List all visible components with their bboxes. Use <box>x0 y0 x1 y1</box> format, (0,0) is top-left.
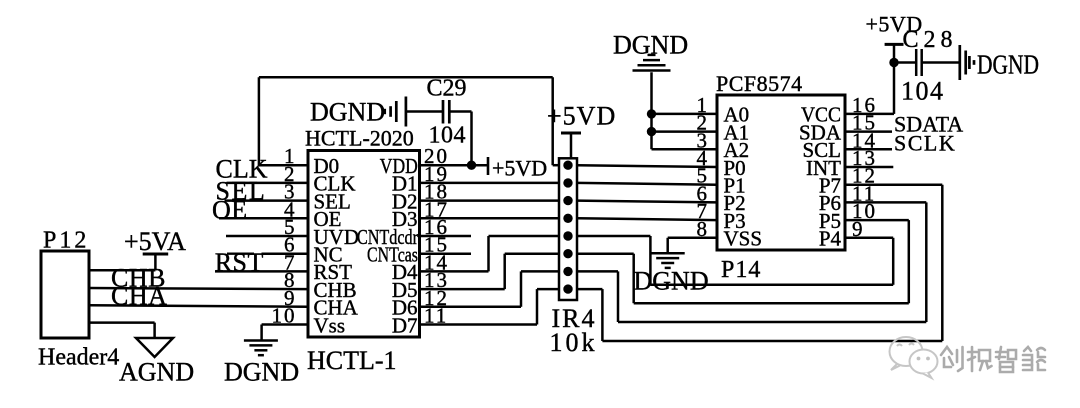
wire D1 HCTL to IR4 <box>420 182 560 185</box>
label DGND near C29 <box>310 98 385 127</box>
ground DGND sideways for C29 <box>385 97 406 127</box>
pin number 7 PCF <box>697 199 710 223</box>
wire D2 IR4 to PCF P2 <box>577 201 717 203</box>
wire VSS pin 8 to ground <box>668 238 717 253</box>
svg-text:9: 9 <box>852 217 865 241</box>
pin name NC (pin 6) <box>314 243 343 267</box>
wire CLK to pin 2 <box>227 182 309 185</box>
pin name SDA (pin 15) <box>799 120 842 144</box>
pin number 14 <box>424 250 449 274</box>
wire INT stub <box>845 166 893 169</box>
pin name VCC (pin 16) <box>801 103 841 127</box>
svg-text:VSS: VSS <box>724 227 763 251</box>
pin number 17 <box>424 197 449 221</box>
wire D3 HCTL to IR4 <box>420 217 560 220</box>
pin name P7 (pin 12) <box>819 174 841 198</box>
pin name D6 (pin 12) <box>392 296 418 320</box>
label P12 designator <box>43 228 89 254</box>
pin number 4 <box>284 197 297 221</box>
pin name RST (pin 7) <box>314 260 353 284</box>
ground DGND sideways for C28 <box>960 45 974 80</box>
svg-text:DGND: DGND <box>224 358 299 387</box>
svg-text:HCTL-2020: HCTL-2020 <box>305 126 414 151</box>
svg-text:PCF8574: PCF8574 <box>716 71 803 96</box>
wire D3 IR4 to PCF P3 <box>577 218 717 220</box>
label DGND under HCTL <box>224 358 299 387</box>
wire D0 IR4 to PCF P0 <box>577 165 717 167</box>
pin name CHA (pin 9) <box>314 296 359 320</box>
label 104 value of C28 <box>901 77 945 106</box>
pin name D3 (pin 17) <box>392 207 418 231</box>
wire D5 to P5 routing <box>577 220 909 303</box>
pin number 1 <box>284 144 297 168</box>
svg-text:104: 104 <box>901 77 945 106</box>
wire P12 pin4 to AGND <box>89 323 155 338</box>
svg-text:Header4: Header4 <box>38 345 119 371</box>
net label CHA <box>111 282 167 311</box>
pin number 11 <box>424 304 448 328</box>
wire D4 to P4 routing <box>577 236 893 285</box>
pin number 3 <box>284 180 297 204</box>
wire SEL to pin 3 <box>225 199 309 202</box>
label Header4 <box>38 345 119 371</box>
watermark text chuangshi zhineng <box>941 347 1045 372</box>
label +5VA <box>124 227 186 256</box>
wire SDA stub <box>845 130 892 133</box>
junction VCC C28 <box>889 58 898 67</box>
wire A1 to ground bus <box>652 130 718 133</box>
wire pin 6 stub <box>262 252 309 255</box>
power +5VA symbol <box>143 254 169 270</box>
junction IR4 pin dot row 5 <box>563 231 572 240</box>
pin name CNTdcdr (pin 16) <box>357 225 418 249</box>
wire CHB P12 to pin 8 <box>89 288 308 289</box>
pin number 20 <box>424 144 449 168</box>
ground DGND above PCF <box>633 55 671 71</box>
svg-text:104: 104 <box>429 123 467 149</box>
net label SCLK <box>894 131 956 156</box>
pin name UVD (pin 5) <box>314 225 360 249</box>
resistor network IR4 body <box>559 158 577 300</box>
label 10k value <box>550 328 598 357</box>
label PCF8574 part name <box>716 71 803 96</box>
svg-text:C29: C29 <box>427 76 467 102</box>
pin number 8 <box>284 268 297 292</box>
svg-text:10k: 10k <box>550 328 598 357</box>
pin name P1 (pin 5) <box>724 174 746 198</box>
pin name A1 (pin 2) <box>724 120 750 144</box>
pin name SEL (pin 3) <box>314 189 351 213</box>
pin number 10 <box>272 304 297 328</box>
wire D4 HCTL staircase to IR4 <box>420 236 560 271</box>
pin name D1 (pin 19) <box>392 172 418 196</box>
pin name VSS (pin 8) <box>724 227 763 251</box>
connector P12 body <box>41 251 89 338</box>
wire CNTdcdr pin 16 stub <box>420 235 472 238</box>
junction A0 ground bus <box>647 109 656 118</box>
IC U2 PCF8574 body <box>717 95 845 250</box>
pin number 9 PCF <box>852 217 865 241</box>
pin name OE (pin 4) <box>314 207 342 231</box>
svg-text:+5VD: +5VD <box>492 156 547 181</box>
capacitor C29 plates <box>443 100 449 124</box>
label AGND <box>119 358 194 387</box>
pin name A2 (pin 3) <box>724 138 750 162</box>
pin name D2 (pin 18) <box>392 189 418 213</box>
net label CLK <box>216 155 268 184</box>
pin number 1 PCF <box>697 93 710 117</box>
pin name P5 (pin 10) <box>819 209 841 233</box>
wire A0 to ground bus <box>652 113 718 116</box>
pin number 2 <box>284 162 297 186</box>
wire junction to C28 left plate <box>894 61 916 64</box>
pin name P2 (pin 6) <box>724 191 746 215</box>
svg-text:DGND: DGND <box>310 98 385 127</box>
pin number 18 <box>424 180 449 204</box>
label DGND at VSS <box>634 267 709 296</box>
wire A2 to ground bus <box>652 72 718 149</box>
wire D0 pin 1 to top loop <box>259 77 559 165</box>
pin number 14 PCF <box>852 128 877 152</box>
pin number 13 <box>424 268 449 292</box>
pin number 12 <box>424 286 449 310</box>
pin number 12 PCF <box>852 164 877 188</box>
junction IR4 pin dot row 3 <box>563 196 572 205</box>
net label CHB <box>111 264 166 293</box>
junction IR4 pin dot row 4 <box>563 214 572 223</box>
svg-text:P12: P12 <box>43 228 89 254</box>
label DGND right of C28 <box>977 50 1039 80</box>
svg-text:SCLK: SCLK <box>894 131 956 156</box>
wire D2 HCTL to IR4 <box>420 199 560 202</box>
svg-text:+5VD: +5VD <box>547 102 616 131</box>
pin name P4 (pin 9) <box>819 227 842 251</box>
pin number 15 <box>424 233 449 257</box>
wire D7 to P7 routing <box>577 185 942 341</box>
ground DGND at VSS <box>651 253 685 268</box>
svg-text:P4: P4 <box>819 227 842 251</box>
wire D6 to P6 routing <box>577 202 926 322</box>
pin number 16 <box>424 215 449 239</box>
svg-text:Vss: Vss <box>314 313 346 337</box>
pin number 11 PCF <box>852 181 876 205</box>
wire C29 right plate to VDD junction <box>449 112 471 166</box>
pin number 8 PCF <box>697 217 710 241</box>
junction IR4 pin dot row 6 <box>563 249 572 258</box>
wire CNTcas pin 15 stub <box>420 252 472 255</box>
pin number 2 PCF <box>697 111 710 135</box>
label +5VD above IR4 <box>547 102 616 131</box>
wire SCL stub <box>845 148 892 151</box>
pin name A0 (pin 1) <box>724 103 750 127</box>
pin number 15 PCF <box>852 111 877 135</box>
pin name CHB (pin 8) <box>314 278 357 302</box>
label HCTL-2020 part name <box>305 126 414 151</box>
net label RST with overbar <box>215 248 264 277</box>
pin name VDD (pin 20) <box>380 154 418 178</box>
svg-text:D7: D7 <box>392 313 418 337</box>
pin number 4 PCF <box>697 146 710 170</box>
junction A1 ground bus <box>647 127 656 136</box>
pin number 10 PCF <box>852 199 877 223</box>
wire D7 HCTL staircase to IR4 <box>420 289 560 324</box>
wire P12 pin1 to +5VA <box>89 269 155 272</box>
wire D5 HCTL staircase to IR4 <box>420 254 560 289</box>
pin number 9 <box>284 286 297 310</box>
net label SEL <box>216 177 267 206</box>
pin name INT (pin 13) <box>806 156 841 180</box>
junction IR4 pin dot row 8 <box>563 284 572 293</box>
pin number 5 <box>284 215 297 239</box>
pin name D4 (pin 14) <box>392 260 418 284</box>
IC U1 HCTL-2020 body <box>308 151 420 338</box>
ground AGND symbol <box>136 338 173 357</box>
svg-text:DGND: DGND <box>634 267 709 296</box>
label IR4 designator <box>552 304 597 333</box>
logo watermark chat bubbles <box>890 337 938 378</box>
pin number 19 <box>424 162 449 186</box>
pin number 5 PCF <box>697 164 710 188</box>
power +5VD above C28 <box>885 44 904 62</box>
svg-text:DGND: DGND <box>977 50 1039 80</box>
pin name SCL (pin 14) <box>802 138 841 162</box>
svg-text:C28: C28 <box>903 27 958 53</box>
net label OE <box>212 196 248 225</box>
capacitor C28 plates <box>916 49 922 76</box>
wire OE to pin 4 <box>219 217 308 220</box>
label 104 value of C29 <box>429 123 467 149</box>
label HCTL-1 designator <box>307 346 397 375</box>
label DGND above PCF <box>613 31 688 60</box>
wire VCC pin 16 to +5VD <box>845 63 894 114</box>
pin number 6 <box>284 233 297 257</box>
wire pin 5 stub <box>226 235 308 238</box>
junction IR4 pin dot row 2 <box>563 178 572 187</box>
svg-text:+5VA: +5VA <box>124 227 186 256</box>
svg-text:OE: OE <box>212 196 248 225</box>
pin number 7 <box>284 250 297 274</box>
wire C28 right plate to ground <box>922 61 959 64</box>
pin name CNTcas (pin 15) <box>367 243 418 267</box>
power +5VD above IR4 <box>561 133 581 158</box>
label +5VD top right <box>866 12 923 37</box>
pin name D5 (pin 13) <box>392 278 418 302</box>
wire D6 HCTL staircase to IR4 <box>420 271 560 306</box>
pin name Vss (pin 10) <box>314 313 346 337</box>
wire RST to pin 7 <box>215 270 308 273</box>
pin number 13 PCF <box>852 146 877 170</box>
pin name P6 (pin 11) <box>819 191 841 215</box>
pin name D7 (pin 11) <box>392 313 418 337</box>
wire VDD pin 20 to +5VD <box>420 164 489 167</box>
label +5VD at VDD <box>492 156 547 181</box>
pin number 6 PCF <box>697 181 710 205</box>
svg-text:P14: P14 <box>721 257 761 283</box>
label C28 <box>903 27 958 53</box>
svg-text:AGND: AGND <box>119 358 194 387</box>
wire D1 IR4 to PCF P1 <box>577 183 717 185</box>
junction IR4 pin dot row 1 <box>563 161 572 170</box>
label C29 <box>427 76 467 102</box>
pin name P3 (pin 7) <box>724 209 746 233</box>
pin number 3 PCF <box>697 128 710 152</box>
ground DGND under HCTL <box>244 341 278 356</box>
wire Vss pin 10 to ground <box>262 325 308 341</box>
pin name P0 (pin 4) <box>724 156 746 180</box>
wire C29 left plate to ground <box>406 110 443 113</box>
pin number 16 PCF <box>852 93 877 117</box>
svg-text:DGND: DGND <box>613 31 688 60</box>
pin name CLK (pin 2) <box>314 172 356 196</box>
power +5VD bar at VDD <box>487 157 490 175</box>
label P14 designator <box>721 257 761 283</box>
junction VDD C29 +5VD <box>467 161 476 170</box>
pin name D0 (pin 1) <box>314 154 340 178</box>
net label SDATA <box>894 112 963 137</box>
junction IR4 pin dot row 7 <box>563 267 572 276</box>
wire CHA P12 to pin 9 <box>89 305 308 307</box>
svg-text:HCTL-1: HCTL-1 <box>307 346 397 375</box>
